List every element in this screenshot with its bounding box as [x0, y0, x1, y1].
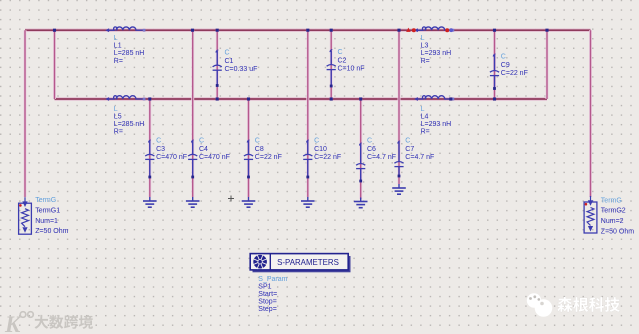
svg-text:L=285 nH: L=285 nH — [114, 50, 145, 57]
term TermG2 — [584, 196, 597, 233]
svg-text:K: K — [4, 312, 22, 334]
svg-text:TermG: TermG — [35, 197, 56, 204]
svg-text:R=: R= — [114, 129, 123, 136]
svg-text:TermG: TermG — [601, 197, 622, 204]
svg-text:L: L — [114, 106, 118, 113]
capacitor C10 — [303, 138, 341, 179]
ground — [143, 197, 157, 207]
junction node C10 top — [306, 29, 309, 32]
svg-text:C9: C9 — [501, 62, 510, 69]
wire C7 branch — [398, 30, 401, 184]
svg-text:C8: C8 — [255, 146, 264, 153]
junction node C2 top — [330, 29, 333, 32]
svg-text:C: C — [156, 138, 161, 145]
ground — [186, 197, 200, 207]
junction node C8 top — [247, 97, 250, 100]
watermark bottom-left logo — [4, 312, 33, 334]
svg-text:Stop=: Stop= — [258, 299, 277, 306]
ground — [392, 184, 406, 194]
capacitor C2 — [327, 49, 365, 87]
svg-text:Start=: Start= — [258, 291, 277, 298]
svg-text:C4: C4 — [199, 146, 208, 153]
capacitor C7 — [394, 138, 434, 178]
wire second bus — [55, 97, 548, 100]
label L4 — [421, 106, 452, 136]
svg-text:C6: C6 — [367, 146, 376, 153]
wire C10 branch — [306, 30, 309, 197]
ground — [242, 197, 256, 207]
svg-text:R=: R= — [421, 58, 430, 65]
junction node C9 bottom — [493, 97, 496, 100]
junction node C2 bottom — [330, 97, 333, 100]
junction node C7 top — [397, 29, 400, 32]
junction node C6 top — [359, 97, 362, 100]
junction node C4 top — [191, 29, 194, 32]
label L1 — [114, 35, 145, 65]
svg-text:C3: C3 — [156, 146, 165, 153]
svg-text:C10: C10 — [314, 146, 327, 153]
junction node top/left tie — [53, 29, 56, 32]
svg-text:C=22 nF: C=22 nF — [501, 70, 528, 77]
svg-text:C=470 nF: C=470 nF — [156, 154, 187, 161]
ground — [301, 197, 315, 207]
svg-text:C: C — [501, 54, 506, 61]
label L5 — [114, 106, 145, 136]
svg-text:Z=50 Ohm: Z=50 Ohm — [35, 228, 68, 235]
junction node L4 out — [449, 97, 452, 100]
wire left bus tie — [53, 30, 56, 99]
svg-text:C1: C1 — [225, 58, 234, 65]
blue marker dot L3 right — [449, 28, 453, 32]
wire input drop to TermG1 — [24, 30, 27, 197]
svg-text:C=0.33 uF: C=0.33 uF — [225, 66, 258, 73]
red marker dot — [412, 28, 416, 32]
svg-text:S_Param: S_Param — [258, 276, 287, 283]
wire right bus tie — [546, 30, 549, 99]
svg-text:Num=2: Num=2 — [601, 218, 624, 225]
inductor L4 — [414, 96, 454, 101]
svg-text:S-PARAMETERS: S-PARAMETERS — [277, 258, 339, 267]
red marker dot L3 right — [445, 28, 449, 32]
svg-text:C: C — [199, 138, 204, 145]
svg-text:Z=50 Ohm: Z=50 Ohm — [601, 229, 634, 236]
red marker arrow — [406, 28, 411, 32]
label S_Param block — [258, 276, 287, 313]
capacitor C3 — [145, 138, 187, 179]
wire C8 branch — [247, 99, 250, 197]
svg-text:C=22 nF: C=22 nF — [314, 154, 341, 161]
svg-text:C: C — [338, 49, 343, 56]
svg-text:L=293 nH: L=293 nH — [421, 50, 452, 57]
svg-text:C: C — [225, 50, 230, 57]
svg-text:R=: R= — [114, 58, 123, 65]
svg-text:SP1: SP1 — [258, 284, 271, 291]
svg-text:Num=1: Num=1 — [35, 218, 58, 225]
watermark bottom-right paw icon — [527, 293, 553, 317]
capacitor C9 — [490, 54, 528, 90]
inductor L3 — [414, 27, 454, 32]
wire C9 branch — [493, 30, 496, 99]
junction node C1 bottom — [216, 97, 219, 100]
svg-text:C: C — [255, 138, 260, 145]
svg-text:C: C — [405, 138, 410, 145]
inductor L5 — [105, 96, 145, 101]
junction node right tie top — [545, 29, 548, 32]
svg-text:L3: L3 — [421, 43, 429, 50]
svg-text:L=285 nH: L=285 nH — [114, 121, 145, 128]
watermark bottom-left text — [35, 315, 93, 329]
wire top bus — [25, 29, 591, 32]
term TermG1 — [19, 197, 32, 234]
label TermG1 — [35, 197, 68, 235]
svg-text:L1: L1 — [114, 43, 122, 50]
svg-text:C=10 nF: C=10 nF — [338, 66, 365, 73]
capacitor C1 — [213, 50, 258, 87]
svg-text:C7: C7 — [405, 146, 414, 153]
svg-text:C=4.7 nF: C=4.7 nF — [405, 154, 434, 161]
S-parameters controller — [250, 254, 350, 273]
origin marker + — [228, 196, 234, 202]
junction node C1 top — [216, 29, 219, 32]
junction node C3/L5 — [148, 97, 151, 100]
svg-text:C: C — [367, 138, 372, 145]
capacitor C4 — [188, 138, 230, 179]
svg-text:C=22 nF: C=22 nF — [255, 154, 282, 161]
capacitor C8 — [244, 138, 282, 179]
svg-text:Step=: Step= — [258, 306, 277, 313]
wire output drop to TermG2 — [589, 30, 592, 197]
wire C2 branch — [330, 30, 333, 99]
svg-text:L: L — [421, 106, 425, 113]
label TermG2 — [601, 197, 634, 235]
capacitor C6 — [356, 138, 396, 183]
svg-text:L: L — [114, 35, 118, 42]
svg-text:C2: C2 — [338, 57, 347, 64]
svg-text:C: C — [314, 138, 319, 145]
inductor L1 — [105, 27, 145, 32]
svg-text:C=470 nF: C=470 nF — [199, 154, 230, 161]
svg-text:L4: L4 — [421, 114, 429, 121]
wire C1 branch — [216, 30, 219, 99]
ground — [354, 198, 368, 208]
svg-text:L=293 nH: L=293 nH — [421, 121, 452, 128]
wire C6 branch — [359, 99, 362, 199]
wire C4 branch — [191, 30, 194, 197]
svg-text:TermG2: TermG2 — [601, 208, 626, 215]
wire C3 branch — [148, 99, 151, 197]
svg-text:C=4.7 nF: C=4.7 nF — [367, 154, 396, 161]
svg-text:TermG1: TermG1 — [35, 207, 60, 214]
svg-text:R=: R= — [421, 129, 430, 136]
label L3 — [421, 35, 452, 65]
watermark bottom-right text — [557, 297, 620, 312]
svg-text:L5: L5 — [114, 114, 122, 121]
svg-text:L: L — [421, 35, 425, 42]
junction node C9 top — [493, 29, 496, 32]
